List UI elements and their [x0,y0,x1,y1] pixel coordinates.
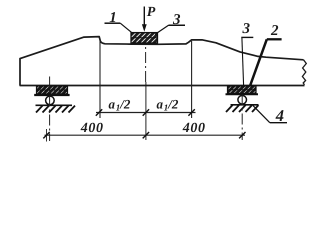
tick right [239,132,245,138]
right ground hatching [226,105,259,112]
label 2 with thick leader crossing beam [248,23,282,91]
load centerline (dash-dot) [145,33,147,82]
svg-text:a1/2: a1/2 [109,97,131,113]
tick middle [143,132,149,138]
tick left [43,132,49,138]
left ground hatching [36,106,75,113]
tick left [96,109,102,115]
left support plate [34,94,69,96]
left support pad (hatched) [37,86,68,94]
tick middle [143,109,149,115]
right support pad (hatched) [228,86,257,94]
label 1 [105,10,133,33]
svg-text:400: 400 [80,121,104,136]
svg-text:2: 2 [270,23,279,39]
left roller [46,96,55,105]
right ground line [231,104,259,106]
beam break line (right end) [302,60,306,85]
left support centerline (dash-dot) [49,77,51,142]
svg-text:P: P [147,5,156,20]
right support centerline (dash-dot) [241,95,243,141]
force P arrow [142,7,147,32]
dimension line 400 + 400 [45,134,246,136]
tick right [188,109,194,115]
label 3 (left, at load pad) [155,12,185,34]
center extension line to dimension rows [145,82,147,140]
beam profile edge line left (a1 extension) [99,40,101,119]
label 4 [253,106,287,125]
load pad (hatched) [131,33,158,43]
svg-text:a1/2: a1/2 [157,97,179,113]
svg-text:3: 3 [242,21,251,37]
right roller [238,96,247,105]
svg-text:400: 400 [182,121,206,136]
dimension line a1/2 + a1/2 [96,112,196,114]
right support plate [226,93,259,95]
beam bottom edge [20,85,305,87]
left end extension [46,129,48,142]
left ground line [36,104,73,106]
beam profile edge line right (a1 extension) [191,41,193,118]
beam outline [20,37,304,86]
label 3 (right, at support pad) [241,21,253,85]
